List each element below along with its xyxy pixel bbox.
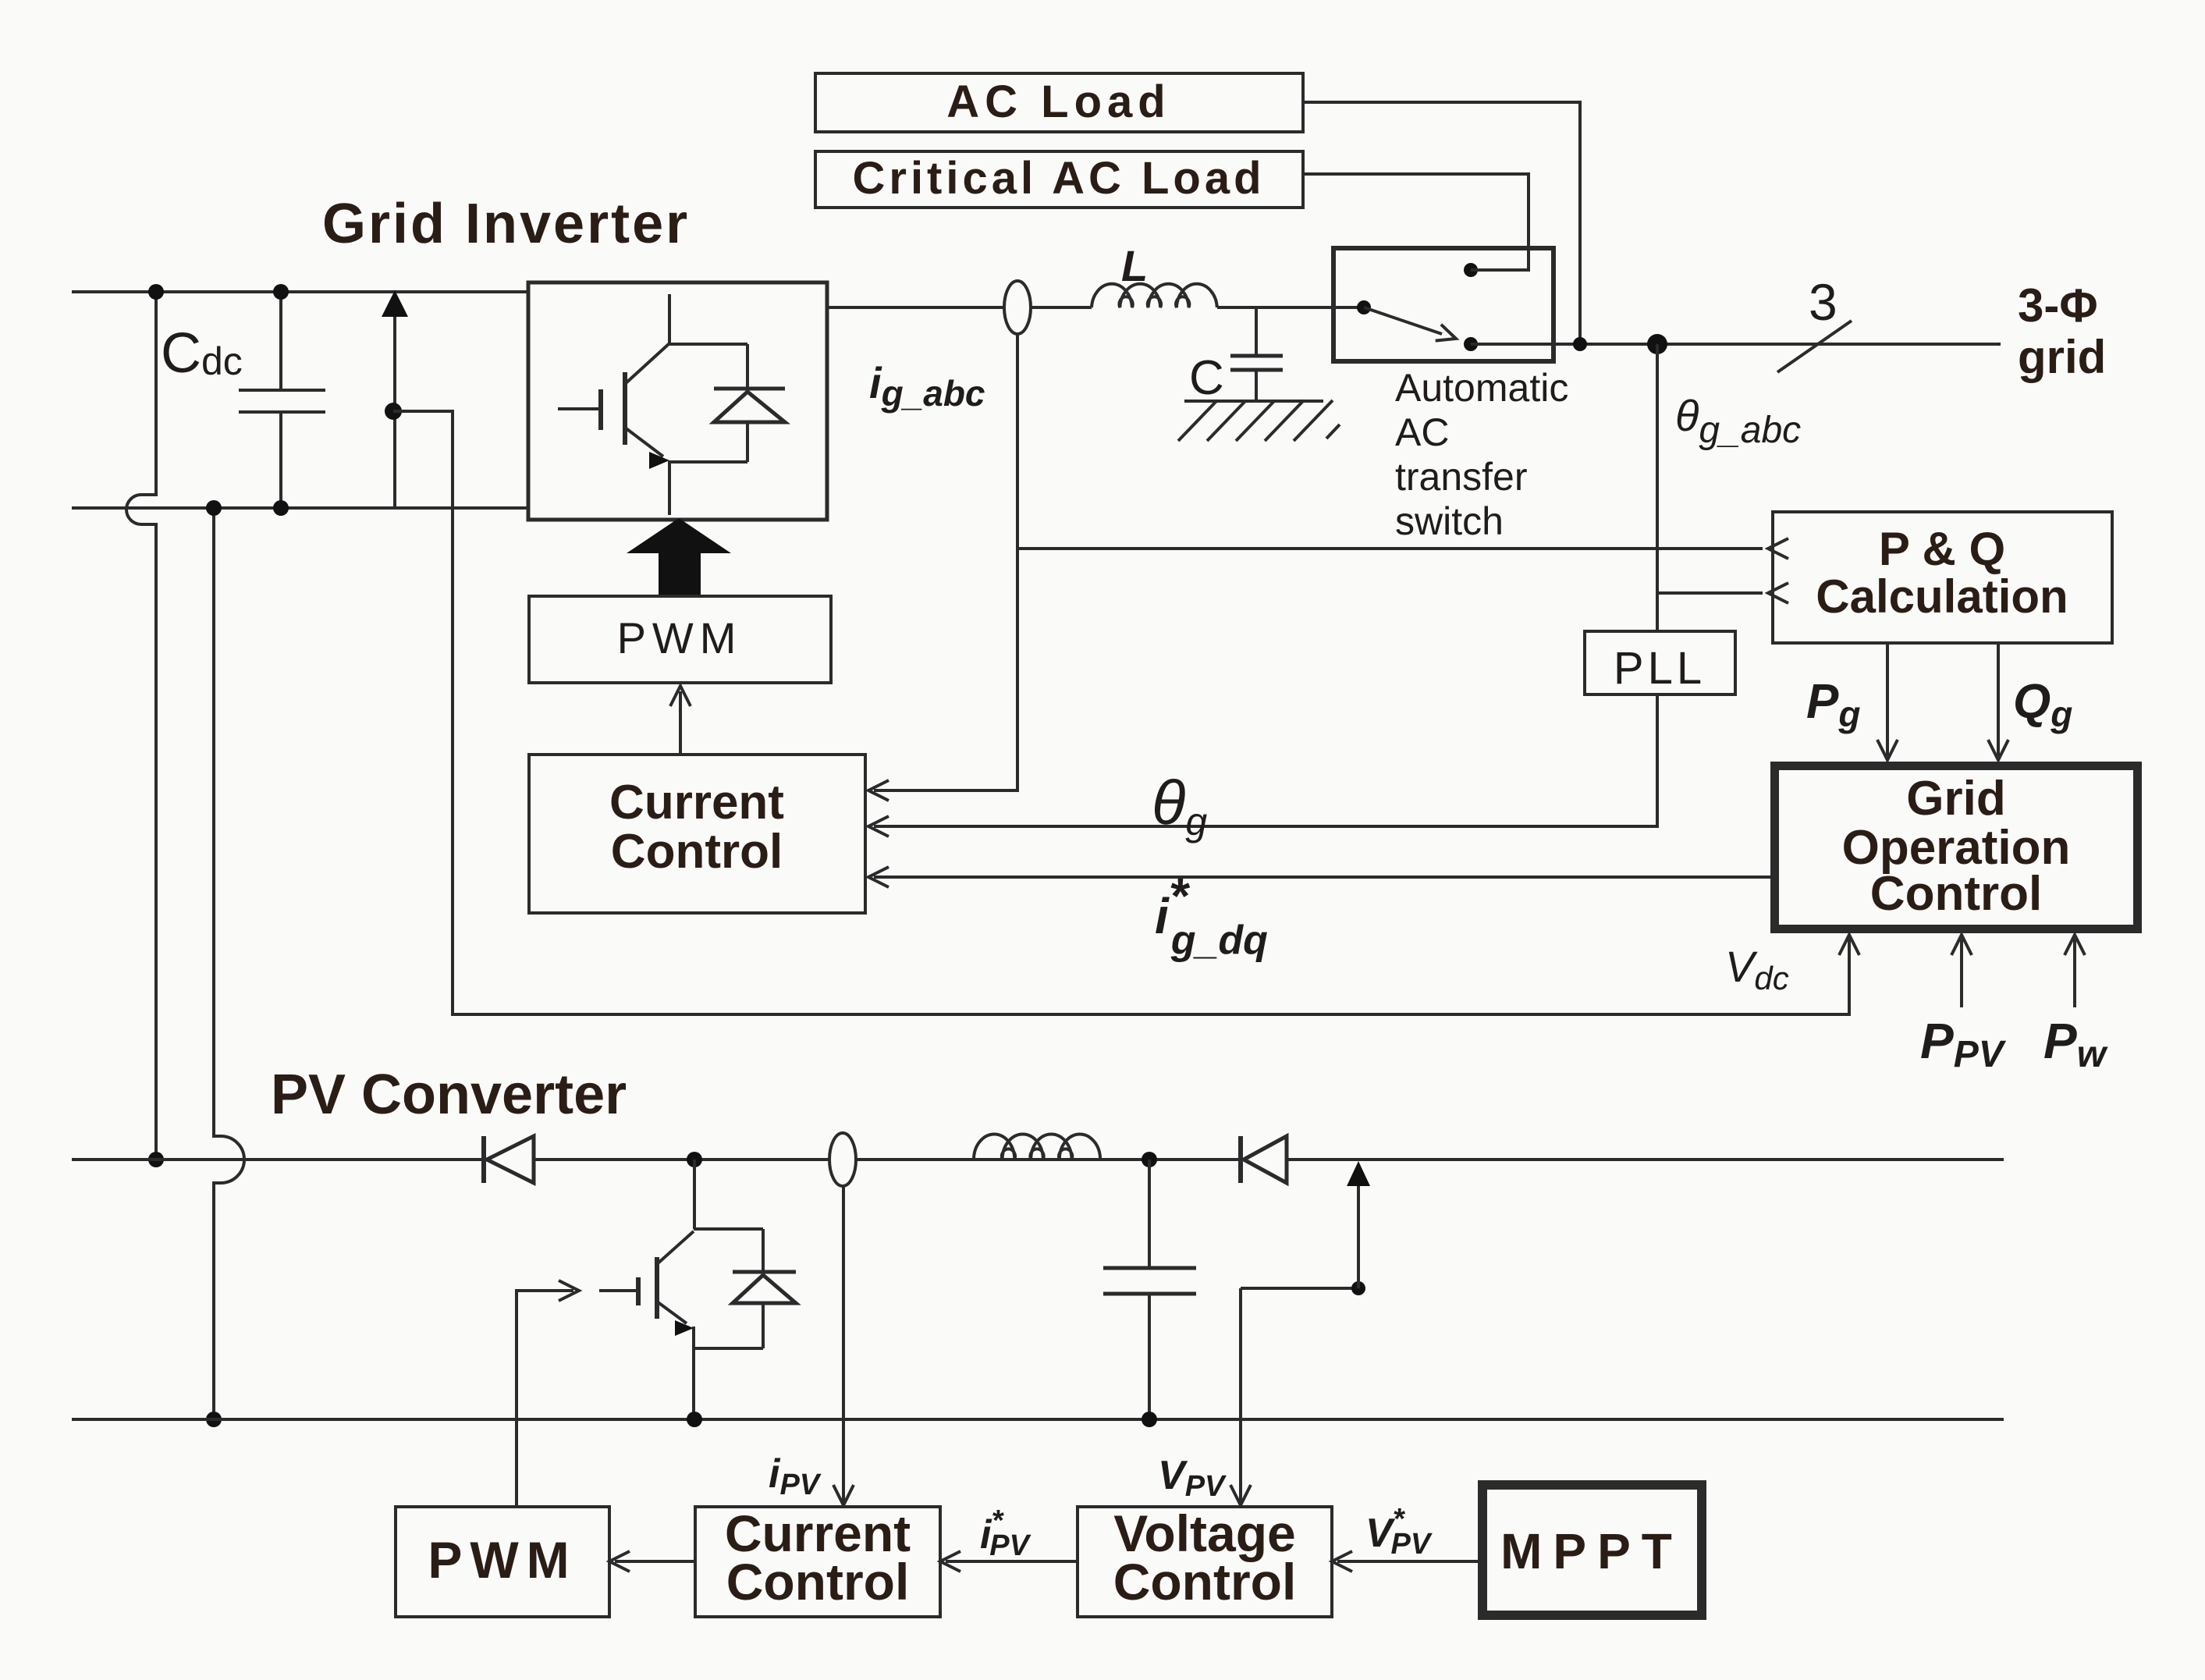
wire MPPT to Voltage Control bbox=[1337, 1560, 1478, 1563]
diode antiparallel PV IGBT bbox=[694, 1227, 763, 1231]
block PWM (PV) bbox=[396, 1507, 609, 1617]
transistor IGBT PV collector lead bbox=[693, 1160, 696, 1229]
svg-text:PV Converter: PV Converter bbox=[271, 1064, 627, 1126]
block Grid Operation Control bbox=[1775, 766, 2138, 929]
svg-text:PWM: PWM bbox=[428, 1531, 577, 1589]
svg-text:Control: Control bbox=[1870, 867, 2042, 921]
sensor current iPV bbox=[829, 1133, 856, 1186]
block automatic AC transfer switch bbox=[1333, 248, 1553, 361]
wire Current Control to PWM (PV) bbox=[615, 1560, 695, 1563]
svg-text:Control: Control bbox=[726, 1553, 910, 1611]
wire Pg to Grid Operation Control bbox=[1886, 643, 1889, 756]
wire Critical AC Load to switch upper contact bbox=[1303, 174, 1529, 270]
svg-text:MPPT: MPPT bbox=[1500, 1523, 1683, 1579]
capacitor PV link bbox=[1148, 1160, 1151, 1268]
node PV cap junction top bbox=[1142, 1152, 1157, 1167]
svg-text:Critical AC Load: Critical AC Load bbox=[852, 153, 1265, 204]
svg-text:grid: grid bbox=[2018, 331, 2106, 383]
diode D2 PV output bbox=[1238, 1136, 1243, 1183]
wire DC+ bus top bbox=[72, 290, 528, 293]
wire AC Load to grid bus bbox=[1303, 102, 1580, 344]
block grid inverter (IGBT bridge) bbox=[528, 282, 827, 520]
wire 3-phase grid line bbox=[1471, 343, 2001, 346]
svg-text:C: C bbox=[1189, 351, 1224, 405]
node DC- / rail junction bbox=[206, 500, 222, 516]
svg-text:Control: Control bbox=[611, 825, 783, 879]
svg-text:Calculation: Calculation bbox=[1816, 570, 2068, 623]
block Current Control (PV) bbox=[695, 1507, 940, 1617]
node Cdc-DC- junction bbox=[273, 500, 289, 516]
node PV cap junction bottom bbox=[1142, 1412, 1157, 1427]
wire Voltage Control to Current Control bbox=[946, 1560, 1078, 1563]
svg-text:Automatic: Automatic bbox=[1395, 366, 1568, 410]
sensor current ig_abc bbox=[1004, 281, 1031, 334]
wire grid sense to PLL bbox=[1656, 344, 1659, 631]
slash 3-phase marker bbox=[1777, 321, 1852, 372]
svg-text:Control: Control bbox=[1113, 1553, 1297, 1611]
svg-text:Current: Current bbox=[609, 776, 784, 829]
svg-text:3: 3 bbox=[1809, 273, 1838, 331]
node VPV tap bbox=[1351, 1281, 1365, 1295]
wire Vdc sense to Grid Operation Control bbox=[393, 411, 1849, 1014]
block P and Q Calculation bbox=[1773, 512, 2112, 643]
node DC+ / left rail junction bbox=[148, 284, 164, 300]
wire DC- rail down to PV- bus (hops PV+ bus) bbox=[214, 508, 244, 1419]
wire PWM gate drive bbox=[517, 1291, 573, 1507]
node left rail to PV+ bus junction bbox=[148, 1152, 164, 1167]
wire theta g from PLL to Current Control bbox=[874, 694, 1657, 826]
capacitor Cdc top plate bbox=[239, 389, 325, 392]
block AC Load bbox=[815, 73, 1303, 132]
ground bbox=[1184, 400, 1323, 403]
wire i*g_dq to Current Control bbox=[874, 876, 1770, 879]
wire inverter output bbox=[827, 306, 1092, 309]
wire Current Control to PWM bbox=[679, 691, 682, 755]
block Voltage Control bbox=[1078, 1507, 1332, 1617]
svg-text:L: L bbox=[1121, 241, 1148, 290]
svg-text:AC Load: AC Load bbox=[946, 76, 1170, 127]
wire PV+ bus bbox=[72, 1158, 2004, 1161]
svg-text:PWM: PWM bbox=[617, 613, 743, 662]
block PWM (grid inverter) bbox=[529, 596, 831, 683]
svg-text:transfer: transfer bbox=[1395, 455, 1528, 499]
node IGBT emitter junction bbox=[687, 1412, 702, 1427]
wire PV- bus bbox=[72, 1418, 2004, 1421]
block MPPT bbox=[1482, 1485, 1702, 1615]
svg-text:switch: switch bbox=[1395, 499, 1504, 543]
transistor IGBT grid inverter bbox=[558, 407, 599, 410]
block Critical AC Load bbox=[815, 151, 1303, 208]
block Current Control (grid) bbox=[529, 755, 865, 913]
node Vdc tap bbox=[385, 403, 402, 420]
svg-text:Grid Inverter: Grid Inverter bbox=[322, 193, 690, 255]
wire DC- bus bottom bbox=[72, 506, 528, 510]
capacitor Cdc bottom lead bbox=[279, 412, 282, 508]
wire L to transfer switch bbox=[1217, 306, 1364, 309]
diode antiparallel grid inverter bbox=[669, 343, 747, 346]
wire left DC rail down to PV bus (hops DC- bus) bbox=[126, 292, 156, 1160]
svg-text:PLL: PLL bbox=[1614, 643, 1706, 694]
wire PPV input bbox=[1960, 939, 1963, 1007]
wire grid sense to P and Q bbox=[1657, 591, 1763, 595]
transistor IGBT PV converter bbox=[599, 1289, 638, 1292]
capacitor Cdc top lead bbox=[279, 292, 282, 390]
switch arm bbox=[1364, 307, 1442, 334]
node switch common contact bbox=[1357, 300, 1371, 314]
node rail to PV- bus junction bbox=[206, 1412, 222, 1427]
wire iPV sense to Current Control bbox=[842, 1186, 845, 1502]
node switch lower contact bbox=[1464, 337, 1478, 351]
wire ig_abc sense to P and Q Calculation bbox=[1017, 547, 1763, 550]
diode D1 PV bus bbox=[481, 1136, 486, 1183]
svg-text:P & Q: P & Q bbox=[1879, 523, 2005, 575]
block PLL bbox=[1585, 631, 1735, 694]
inductor PV boost bbox=[974, 1135, 1100, 1160]
block arrow PWM to inverter bbox=[627, 518, 731, 596]
capacitor Cdc bottom plate bbox=[239, 410, 325, 414]
inductor L bbox=[1092, 284, 1217, 307]
svg-text:3-Φ: 3-Φ bbox=[2018, 279, 2098, 332]
node grid sense junction bbox=[1647, 334, 1667, 354]
wire Pw input bbox=[2073, 939, 2076, 1007]
node Cdc-DC+ junction bbox=[273, 284, 289, 300]
node AC load junction bbox=[1573, 337, 1587, 351]
wire Vdc measurement arrow line bbox=[393, 298, 396, 508]
wire VPV sense to Voltage Control bbox=[1239, 1288, 1242, 1502]
wire ig_abc sense to Current Control bbox=[874, 334, 1017, 790]
svg-text:Grid: Grid bbox=[1906, 772, 2005, 826]
svg-text:AC: AC bbox=[1395, 410, 1449, 454]
capacitor C filter bbox=[1255, 307, 1258, 356]
wire Qg to Grid Operation Control bbox=[1997, 643, 2000, 756]
node switch upper contact bbox=[1464, 263, 1478, 277]
wire VPV measurement bbox=[1241, 1287, 1358, 1290]
node IGBT collector junction bbox=[687, 1152, 702, 1167]
